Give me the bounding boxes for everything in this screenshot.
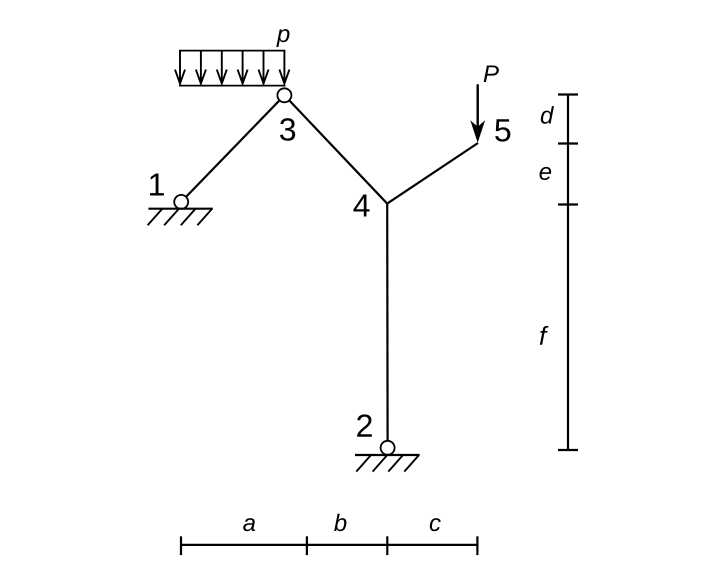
- dim label d: [541, 106, 554, 124]
- right dim: tick at node5 level: [558, 142, 578, 144]
- node label 1: [150, 173, 164, 195]
- support at node 1: ground line: [148, 208, 212, 210]
- bottom dim: tick 2: [306, 536, 308, 555]
- support at node 2: ground line: [355, 454, 420, 456]
- node label 2: [357, 414, 372, 436]
- load label p: [276, 29, 289, 47]
- bottom dim: tick 1: [180, 536, 182, 555]
- distributed load p: bottom line: [179, 85, 285, 87]
- dim label b: [334, 514, 346, 532]
- node 1 (pin circle): [174, 195, 188, 209]
- dim label c: [430, 518, 441, 531]
- dim label f: [540, 326, 549, 345]
- bottom dim: tick 4: [476, 536, 478, 555]
- force P arrow: [477, 84, 479, 130]
- support at node 2: hatching: [356, 455, 419, 472]
- node label 4: [353, 194, 369, 216]
- node 2 (pin circle): [381, 441, 395, 455]
- right dimension line (vertical): [567, 95, 569, 451]
- right dim: tick at node4 level: [558, 203, 578, 205]
- member 3-4: [284, 95, 387, 203]
- right dim: top cap: [558, 93, 578, 95]
- node 3 (hinge circle): [277, 88, 291, 102]
- node label 3: [280, 118, 295, 141]
- member 4-5: [387, 143, 478, 204]
- distributed load p: arrows: [175, 51, 289, 84]
- force label P: [484, 65, 499, 82]
- node label 5: [495, 119, 510, 141]
- right dim: bottom cap: [558, 449, 578, 451]
- bottom dimension line (horizontal): [181, 544, 477, 546]
- member 1-3: [181, 95, 284, 202]
- dim label e: [540, 167, 552, 180]
- support at node 1: hatching: [148, 209, 213, 226]
- bottom dim: tick 3: [386, 536, 388, 555]
- distributed load p: top line: [179, 50, 285, 52]
- member 4-2: [386, 204, 389, 441]
- dim label a: [243, 518, 255, 531]
